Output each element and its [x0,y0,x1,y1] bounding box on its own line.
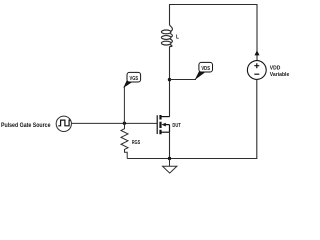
node bottom junction [168,157,171,160]
wire left vertical upper (top rail to inductor) [169,4,171,25]
arrow current direction up [255,50,260,55]
svg-text:L: L [176,34,179,40]
svg-text:RGS: RGS [132,140,140,146]
VDS callout pointer [195,71,206,80]
plus sign [254,63,259,68]
source VDD circle [247,61,266,80]
wire top rail [170,4,258,6]
svg-text:VDD: VDD [270,66,281,72]
wire VGS probe lead [123,87,125,124]
node gate junction [123,122,126,125]
transistor DUT n-MOSFET [157,115,169,134]
wire VDD branch upper [256,4,258,61]
body-source vertical [169,125,171,133]
channel segments [159,115,161,134]
wire source to bottom rail [169,132,171,158]
VGS callout pointer [123,79,133,88]
wire VDS probe lead [170,79,197,81]
gate bar [156,115,158,134]
wire VDD branch lower [127,80,257,159]
svg-text:DUT: DUT [172,123,181,129]
svg-text:VDS: VDS [201,66,210,72]
svg-text:Pulsed Gate Source: Pulsed Gate Source [1,122,51,129]
wire ground stem [169,159,171,167]
ground [163,166,177,173]
VGS callout box [127,72,141,82]
drain lead [161,116,169,118]
node VDS probe junction [168,78,171,81]
body arrow [164,124,170,126]
minus sign [254,73,259,75]
source lead [161,131,169,133]
resistor RGS [121,123,128,158]
source pulse generator circle [56,116,71,131]
svg-text:VGS: VGS [130,76,139,82]
inductor L [161,25,172,48]
VDS callout box [199,62,213,72]
wire left vertical lower (inductor to MOSFET drain) [169,47,171,117]
wire gate lead [71,122,157,124]
svg-text:Variable: Variable [270,72,290,78]
pulse waveform glyph [58,120,70,126]
